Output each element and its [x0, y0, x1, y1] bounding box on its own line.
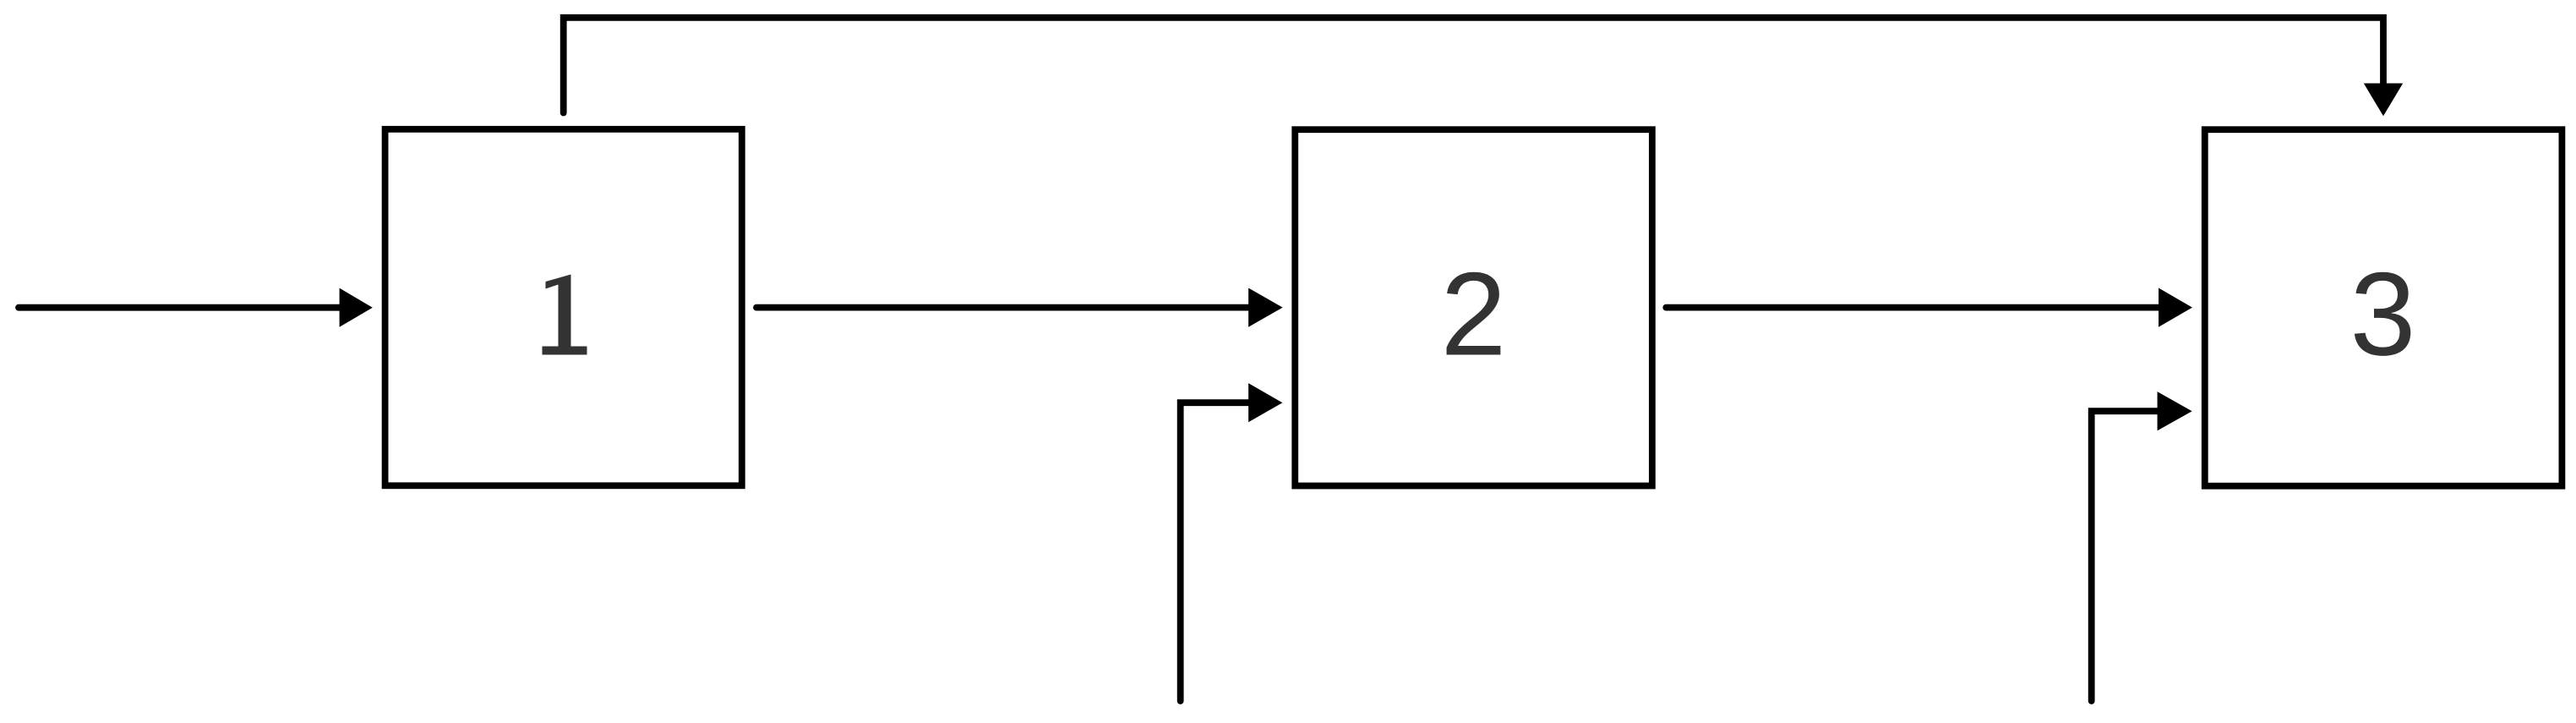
wire: lower elbow input into block 3 — [2092, 411, 2158, 701]
block 1 box — [385, 129, 742, 486]
svg-text:2: 2 — [1441, 248, 1507, 381]
arrowhead into block 1 left — [340, 288, 373, 327]
wire: feedback from block 1 top to block 3 top — [564, 18, 2383, 113]
svg-text:3: 3 — [2350, 248, 2416, 381]
arrowhead into block 3 left (center) — [2158, 288, 2192, 327]
block 2 box — [1295, 129, 1652, 485]
wire: input arrow line into block 1 — [19, 304, 341, 311]
arrowhead into block 3 left (lower) — [2158, 392, 2192, 430]
wire: block 2 to block 3 — [1666, 304, 2160, 311]
wire: block 1 to block 2 — [756, 304, 1250, 311]
arrowhead down into block 3 top — [2364, 84, 2403, 117]
arrowhead into block 2 left (center) — [1248, 288, 1283, 327]
label 1 — [543, 275, 587, 355]
block 3 box — [2205, 129, 2562, 486]
wire: lower elbow input into block 2 — [1181, 403, 1250, 701]
arrowhead into block 2 left (lower) — [1248, 383, 1282, 422]
